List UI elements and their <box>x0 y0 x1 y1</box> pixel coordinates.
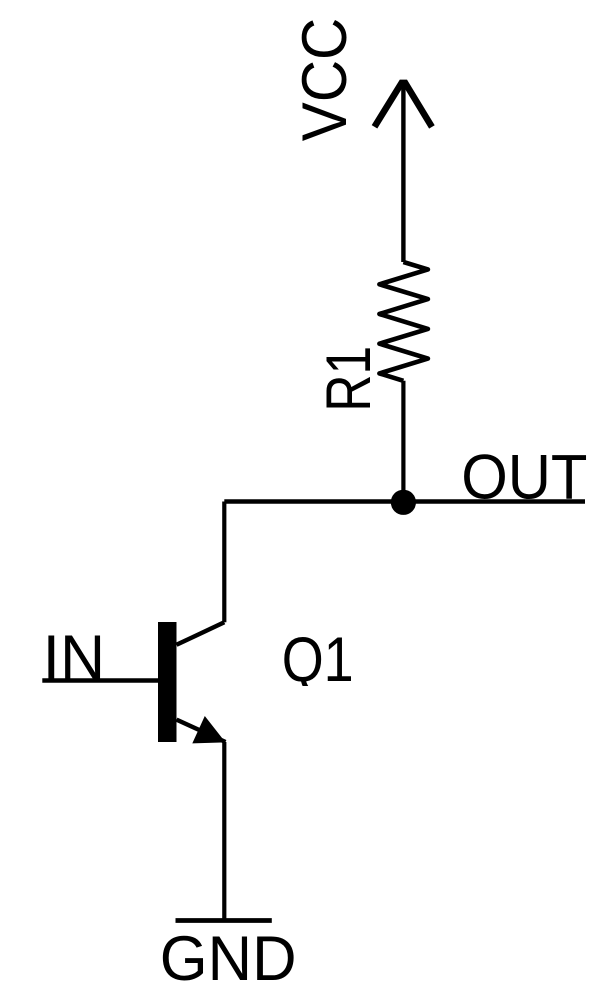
wire VCC arrow shaft to resistor top <box>401 81 405 262</box>
svg-text:VCC: VCC <box>290 18 360 142</box>
wire resistor bottom to OUT node <box>401 381 405 502</box>
svg-text:R1: R1 <box>314 346 384 412</box>
resistor R1 <box>379 262 428 381</box>
transistor Q1 emitter arrowhead <box>192 716 225 743</box>
label Q1 <box>282 625 354 695</box>
wire collector diagonal <box>177 622 225 645</box>
transistor Q1 emitter diagonal <box>177 720 226 742</box>
svg-text:IN: IN <box>43 623 106 693</box>
wire emitter to ground <box>222 742 226 919</box>
svg-text:OUT: OUT <box>461 443 587 513</box>
svg-text:GND: GND <box>160 924 297 994</box>
transistor Q1 base bar <box>158 622 177 742</box>
svg-text:Q1: Q1 <box>282 625 354 695</box>
wire base input <box>42 678 158 683</box>
wire collector vertical <box>222 502 226 623</box>
junction dot at OUT node <box>391 490 416 515</box>
ground <box>176 918 272 923</box>
power symbol VCC arrow <box>372 80 435 129</box>
wire OUT node horizontal <box>224 499 585 503</box>
